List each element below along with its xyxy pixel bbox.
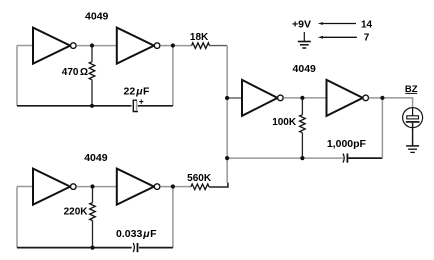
svg-text:14: 14 bbox=[361, 19, 373, 30]
node junction dot (R 220K bottom) bbox=[90, 246, 94, 250]
capacitor 0.033uF bbox=[133, 243, 137, 252]
buzzer BZ (piezo) bbox=[403, 108, 423, 128]
node junction dot (U1E out / R 100K top) bbox=[300, 96, 304, 100]
node junction dot (U1C out / R 220K top) bbox=[90, 184, 94, 188]
wire left vertical (top osc feedback) bbox=[16, 46, 18, 106]
wire input stub to U1C bbox=[17, 186, 33, 188]
label BZ underline bbox=[405, 92, 417, 94]
wire U1F output to BZ bbox=[369, 98, 413, 108]
node junction dot (bus to 1000pF wire) bbox=[225, 156, 229, 160]
svg-text:18K: 18K bbox=[190, 32, 209, 43]
arrowhead pin 7 (points left) bbox=[318, 36, 323, 39]
svg-text:560K: 560K bbox=[187, 173, 212, 184]
wire input stub to U1A bbox=[17, 45, 33, 47]
inverter U1F (4049) bbox=[327, 80, 369, 116]
node junction dot (U1F out) bbox=[380, 96, 384, 100]
node junction dot (U1A out / R 470 top) bbox=[90, 43, 94, 47]
node junction dot (bus to U1E input) bbox=[225, 96, 229, 100]
svg-text:+9V: +9V bbox=[292, 18, 311, 30]
wire U1D output to 560K bbox=[160, 186, 191, 188]
node junction dot (U1D out) bbox=[171, 184, 175, 188]
wire feedback 1000pF (left of cap) bbox=[227, 157, 343, 159]
wire 18K to summing bus bbox=[210, 45, 228, 47]
ground (power, pin 7) bbox=[298, 32, 311, 48]
resistor 560K (horizontal) bbox=[191, 184, 209, 190]
wire 560K to summing bus bbox=[209, 183, 228, 188]
inverter U1B (4049) bbox=[117, 28, 160, 64]
wire 1000pF to U1F output (black) bbox=[348, 157, 382, 159]
wire U1B output to 18K bbox=[160, 45, 191, 47]
svg-text:100K: 100K bbox=[272, 117, 297, 128]
ground (below buzzer) bbox=[406, 146, 419, 153]
wire U1C output to U1D input bbox=[76, 186, 116, 188]
wire up from 1000pF to U1F output node bbox=[381, 98, 383, 158]
wire bottom feedback (bottom osc, left of C 0.033uF) bbox=[17, 247, 132, 249]
svg-text:220K: 220K bbox=[64, 207, 89, 218]
resistor 100K (vertical) bbox=[300, 98, 306, 158]
capacitor 1000pF bbox=[343, 154, 347, 163]
node junction dot (U1B out) bbox=[171, 43, 175, 47]
svg-text:0.033μF: 0.033μF bbox=[116, 228, 157, 240]
wire U1E output to U1F input bbox=[284, 97, 327, 99]
wire pin 7 arrow line bbox=[321, 36, 357, 38]
wire U1D output down to bottom feedback bbox=[172, 187, 174, 248]
svg-text:1,000pF: 1,000pF bbox=[327, 138, 367, 150]
svg-text:4049: 4049 bbox=[293, 63, 317, 75]
arrowhead pin 14 (points left) bbox=[318, 22, 323, 25]
wire buzzer to ground bbox=[412, 122, 414, 146]
node junction dot (R 100K bottom) bbox=[300, 156, 304, 160]
node junction dot (R 470 bottom) bbox=[90, 104, 94, 108]
wire summing bus vertical bbox=[226, 46, 228, 184]
capacitor 22uF (polarized) bbox=[133, 100, 143, 112]
wire bottom feedback (top osc, right of C 22uF) bbox=[138, 105, 173, 107]
inverter U1C (4049) bbox=[33, 169, 76, 205]
svg-text:4049: 4049 bbox=[84, 152, 108, 164]
inverter U1E (4049) bbox=[242, 80, 283, 116]
wire U1A output to U1B input bbox=[76, 45, 116, 47]
wire bottom feedback (bottom osc, right of C 0.033uF) bbox=[139, 247, 173, 249]
resistor 18K (horizontal) bbox=[192, 43, 210, 49]
wire pin 14 arrow line bbox=[321, 23, 356, 25]
wire U1B output down to bottom feedback bbox=[172, 46, 174, 106]
resistor 470ohm (vertical) bbox=[89, 46, 95, 106]
inverter U1A (4049) bbox=[33, 28, 76, 64]
wire left vertical (bottom osc feedback) bbox=[16, 187, 18, 248]
resistor 220K (vertical) bbox=[90, 187, 96, 248]
wire bottom feedback (top osc, left of C 22uF) bbox=[17, 105, 132, 107]
svg-text:7: 7 bbox=[364, 33, 370, 44]
inverter U1D (4049) bbox=[117, 169, 160, 205]
svg-text:470Ω: 470Ω bbox=[62, 67, 88, 78]
wire bus to U1E input bbox=[227, 97, 242, 99]
svg-text:4049: 4049 bbox=[85, 11, 109, 23]
svg-text:22μF: 22μF bbox=[124, 85, 151, 97]
